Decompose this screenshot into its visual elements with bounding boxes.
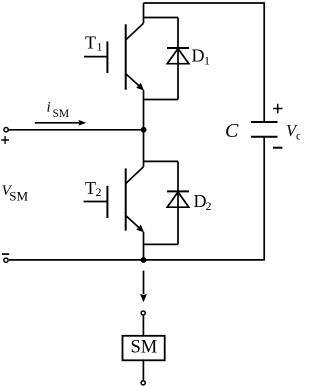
svg-text:2: 2 bbox=[96, 185, 102, 199]
svg-text:1: 1 bbox=[204, 54, 210, 68]
svg-text:T: T bbox=[85, 178, 96, 198]
svg-text:i: i bbox=[47, 99, 51, 115]
svg-text:C: C bbox=[225, 120, 239, 142]
svg-text:D: D bbox=[192, 46, 205, 66]
svg-text:2: 2 bbox=[206, 199, 212, 213]
svg-text:SM: SM bbox=[131, 338, 158, 358]
svg-text:T: T bbox=[85, 32, 96, 52]
svg-text:c: c bbox=[296, 131, 300, 143]
svg-text:SM: SM bbox=[9, 189, 28, 204]
svg-text:SM: SM bbox=[53, 108, 70, 120]
svg-text:1: 1 bbox=[97, 40, 103, 54]
